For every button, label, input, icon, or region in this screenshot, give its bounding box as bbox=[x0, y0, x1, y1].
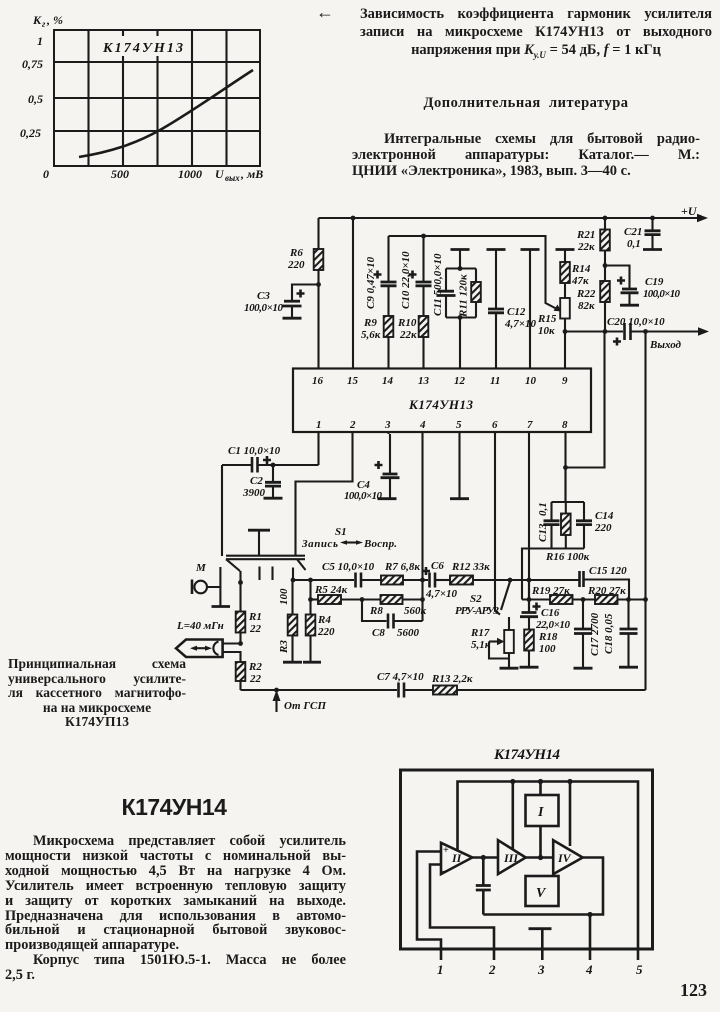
svg-text:К174УН13: К174УН13 bbox=[102, 41, 183, 56]
svg-text:R18: R18 bbox=[538, 631, 558, 643]
svg-text:R9: R9 bbox=[363, 317, 377, 329]
heading К174УН14 bbox=[0, 794, 348, 821]
resistor R21 bbox=[576, 216, 610, 253]
pin 2 lead with inverting input wiring bbox=[430, 865, 496, 978]
literature paragraph bbox=[352, 131, 700, 179]
svg-text:п: п bbox=[697, 212, 702, 221]
resistor R19 bbox=[522, 585, 595, 604]
pin 5 lead bbox=[636, 945, 643, 977]
capacitor C7 (series) bbox=[377, 671, 433, 698]
svg-text:С6: С6 bbox=[431, 560, 444, 572]
ARU feedback wire from C9/C10 to R15 bbox=[389, 236, 562, 312]
svg-text:100: 100 bbox=[278, 588, 290, 605]
svg-text:5600: 5600 bbox=[397, 627, 420, 639]
svg-text:5,1к: 5,1к bbox=[471, 639, 491, 651]
svg-text:S2: S2 bbox=[470, 593, 482, 605]
pin 5 stub to common bbox=[450, 432, 469, 499]
wire C1 line down to switch bbox=[221, 465, 223, 556]
node C1/C2 bbox=[271, 463, 276, 468]
resistor R20 bbox=[581, 585, 648, 604]
op-amp IV bbox=[553, 782, 583, 875]
capacitor C5 (series) bbox=[322, 561, 381, 588]
svg-text:I: I bbox=[537, 805, 544, 820]
resistor R8 bbox=[360, 595, 427, 617]
resistor R22 bbox=[576, 251, 610, 332]
capacitor C18 bbox=[603, 600, 638, 668]
wire pin6 down to S2 contact bbox=[495, 432, 500, 615]
resistor R3 with vertical labels bbox=[278, 580, 302, 662]
svg-text:100: 100 bbox=[539, 643, 556, 655]
grid horizontal lines bbox=[54, 62, 260, 131]
svg-text:+: + bbox=[443, 845, 449, 856]
svg-text:220: 220 bbox=[594, 522, 612, 534]
svg-text:6: 6 bbox=[492, 419, 498, 431]
resistor R9 bbox=[361, 316, 393, 368]
wire pin7 down bbox=[528, 432, 530, 612]
switch S1 slide bar bbox=[226, 556, 306, 571]
svg-text:15: 15 bbox=[347, 375, 359, 387]
svg-text:12: 12 bbox=[454, 375, 466, 387]
graph frame bbox=[54, 30, 260, 166]
capacitor C9 bbox=[365, 236, 397, 316]
svg-text:R13 2,2к: R13 2,2к bbox=[431, 673, 473, 685]
node R1 / head bbox=[238, 641, 243, 646]
svg-text:_: _ bbox=[442, 861, 449, 873]
svg-text:IV: IV bbox=[557, 851, 572, 865]
svg-text:R7 6,8к: R7 6,8к bbox=[384, 561, 420, 573]
svg-text:С5 10,0×10: С5 10,0×10 bbox=[322, 561, 375, 573]
capacitor C11 / resistor R11 parallel pair on pin 12 bbox=[432, 250, 481, 369]
svg-text:3: 3 bbox=[384, 419, 391, 431]
svg-text:М: М bbox=[195, 562, 207, 574]
svg-text:От ГСП: От ГСП bbox=[284, 700, 326, 712]
svg-text:3900: 3900 bbox=[242, 487, 266, 499]
svg-text:47к: 47к bbox=[571, 275, 589, 287]
capacitor C21 bbox=[624, 216, 662, 250]
svg-text:14: 14 bbox=[382, 375, 394, 387]
block V bbox=[526, 876, 559, 906]
wire pin1 down to C1 line bbox=[317, 432, 319, 465]
capacitor C4 (electrolytic) on pin 3 bbox=[344, 432, 400, 502]
pin 3 lead with common bar bbox=[529, 929, 552, 977]
svg-text:С21: С21 bbox=[624, 226, 642, 238]
svg-text:R14: R14 bbox=[571, 263, 591, 275]
node R15 / output line bbox=[563, 329, 568, 334]
tape head L=40 mH bbox=[176, 620, 241, 662]
svg-text:0,75: 0,75 bbox=[22, 57, 43, 71]
svg-text:1: 1 bbox=[437, 962, 444, 977]
svg-text:R1: R1 bbox=[248, 611, 262, 623]
svg-text:R19 27к: R19 27к bbox=[531, 585, 570, 597]
svg-text:С1 10,0×10: С1 10,0×10 bbox=[228, 445, 281, 457]
switch S2 bbox=[455, 578, 512, 617]
output line with capacitor C20 bbox=[565, 316, 709, 351]
capacitor C10 bbox=[400, 234, 432, 316]
switch S1 common bar symbol bbox=[248, 526, 397, 555]
signal path wires bbox=[472, 855, 553, 860]
svg-text:С3: С3 bbox=[257, 290, 270, 302]
resistor R14 bbox=[556, 250, 591, 288]
feedback loop IV output bbox=[483, 858, 603, 918]
microphone M bbox=[192, 562, 230, 607]
svg-text:вых: вых bbox=[225, 173, 240, 183]
svg-text:4: 4 bbox=[585, 962, 593, 977]
svg-text:0,1: 0,1 bbox=[537, 502, 549, 516]
svg-text:1: 1 bbox=[37, 34, 43, 48]
svg-text:R4: R4 bbox=[317, 614, 331, 626]
svg-text:8: 8 bbox=[562, 419, 568, 431]
svg-text:С2: С2 bbox=[250, 475, 263, 487]
svg-text:II: II bbox=[451, 851, 463, 865]
svg-text:V: V bbox=[536, 886, 547, 901]
svg-text:R12 33к: R12 33к bbox=[451, 561, 490, 573]
resistor R4 bbox=[303, 578, 335, 663]
grid vertical lines bbox=[89, 30, 227, 166]
svg-text:10: 10 bbox=[525, 375, 537, 387]
wire pin8 down bbox=[564, 432, 566, 502]
op-amp III bbox=[498, 840, 526, 874]
page number bbox=[680, 980, 707, 1001]
svg-text:R10: R10 bbox=[397, 317, 417, 329]
svg-text:К: К bbox=[32, 13, 42, 27]
svg-text:S1: S1 bbox=[335, 526, 347, 538]
svg-text:2: 2 bbox=[349, 419, 356, 431]
svg-text:1: 1 bbox=[316, 419, 322, 431]
svg-text:РРУ-АРУЗ: РРУ-АРУЗ bbox=[455, 605, 499, 617]
svg-text:1000: 1000 bbox=[178, 167, 202, 181]
outer case box bbox=[401, 770, 653, 949]
svg-text:III: III bbox=[503, 851, 519, 865]
svg-text:R22: R22 bbox=[576, 288, 596, 300]
svg-text:С20 10,0×10: С20 10,0×10 bbox=[607, 316, 665, 328]
svg-text:С12: С12 bbox=[507, 306, 526, 318]
resistor R5 bbox=[311, 584, 363, 604]
resistor R10 bbox=[397, 316, 428, 368]
svg-text:К174УН14: К174УН14 bbox=[493, 747, 561, 763]
block I bbox=[526, 782, 559, 858]
svg-text:7: 7 bbox=[527, 419, 533, 431]
variable resistor R15 bbox=[537, 283, 570, 368]
svg-text:11: 11 bbox=[490, 375, 500, 387]
wire pin2 to switch bbox=[296, 432, 353, 556]
svg-text:22к: 22к bbox=[399, 329, 417, 341]
IC U1 К174УН13 bbox=[293, 369, 591, 433]
svg-text:22,0×10: 22,0×10 bbox=[535, 619, 571, 631]
capacitor C16 (electrolytic) bbox=[520, 580, 571, 631]
node pin8 / output tap bbox=[563, 465, 568, 470]
capacitor C3 (electrolytic) bbox=[244, 285, 319, 319]
C13 / R16 / C14 parallel group on pin 8 bbox=[522, 468, 614, 600]
svg-text:С17 2700: С17 2700 bbox=[589, 612, 601, 656]
svg-text:С18 0,05: С18 0,05 bbox=[603, 613, 615, 654]
svg-text:5: 5 bbox=[636, 962, 643, 977]
resistor R12 bbox=[450, 561, 579, 585]
svg-text:560к: 560к bbox=[404, 605, 427, 617]
svg-text:R6: R6 bbox=[289, 247, 303, 259]
capacitor C2 bbox=[242, 465, 283, 499]
svg-text:С14: С14 bbox=[595, 510, 614, 522]
svg-text:R21: R21 bbox=[576, 229, 595, 241]
curve label К174УН13 bbox=[98, 36, 188, 56]
svg-text:Запись: Запись bbox=[301, 538, 338, 550]
svg-text:С19: С19 bbox=[645, 276, 664, 288]
svg-text:R20 27к: R20 27к bbox=[587, 585, 626, 597]
svg-text:+U: +U bbox=[681, 204, 698, 218]
capacitor C19 (electrolytic) bbox=[605, 266, 681, 306]
svg-text:4,7×10: 4,7×10 bbox=[425, 588, 458, 600]
svg-text:100,0×10: 100,0×10 bbox=[344, 490, 383, 502]
switch S1 contacts bbox=[238, 567, 295, 585]
variable resistor R17 bbox=[470, 617, 519, 668]
svg-text:0,1: 0,1 bbox=[627, 238, 641, 250]
svg-text:22: 22 bbox=[249, 623, 262, 635]
svg-text:R2: R2 bbox=[248, 661, 262, 673]
resistor R2 bbox=[236, 661, 263, 690]
svg-text:R11 120к: R11 120к bbox=[458, 274, 470, 318]
svg-text:100,0×10: 100,0×10 bbox=[244, 302, 284, 314]
capacitor C15 on line A bbox=[580, 565, 630, 600]
svg-text:R16 100к: R16 100к bbox=[545, 551, 590, 563]
svg-text:0,25: 0,25 bbox=[20, 126, 41, 140]
svg-text:Воспр.: Воспр. bbox=[363, 538, 397, 550]
op-amp II bbox=[441, 782, 513, 875]
resistor R6 bbox=[287, 218, 323, 368]
node: pin15 to rail bbox=[351, 216, 356, 368]
svg-text:0: 0 bbox=[43, 167, 49, 181]
capacitor C6 (series electrolytic) bbox=[422, 560, 458, 600]
svg-text:С15 120: С15 120 bbox=[589, 565, 627, 577]
svg-text:С13: С13 bbox=[537, 523, 549, 542]
svg-text:, мВ: , мВ bbox=[240, 167, 263, 181]
capacitor C17 bbox=[574, 600, 602, 669]
svg-text:9: 9 bbox=[562, 375, 568, 387]
svg-text:220: 220 bbox=[287, 259, 305, 271]
feedback line right edge down to bottom bbox=[644, 332, 646, 691]
svg-text:С11 500,0×10: С11 500,0×10 bbox=[432, 253, 444, 316]
svg-text:С10 22,0×10: С10 22,0×10 bbox=[400, 251, 412, 309]
pin 10 stub bbox=[521, 250, 540, 369]
capacitor C8 parallel loop bbox=[362, 597, 425, 639]
svg-text:Выход: Выход bbox=[649, 339, 682, 351]
top supply bus bbox=[458, 779, 639, 945]
node pin7 / line A bbox=[527, 578, 532, 583]
svg-text:16: 16 bbox=[312, 375, 324, 387]
pin 4 lead bbox=[585, 915, 593, 978]
svg-text:К174УН13: К174УН13 bbox=[408, 397, 474, 412]
node R6/C3 bbox=[316, 282, 321, 287]
pin 1 lead with input wiring bbox=[417, 852, 444, 978]
svg-text:R3: R3 bbox=[278, 640, 290, 654]
svg-text:U: U bbox=[215, 167, 225, 181]
node pin4/line A bbox=[420, 578, 425, 583]
svg-text:500: 500 bbox=[111, 167, 129, 181]
svg-text:R15: R15 bbox=[537, 313, 557, 325]
left caption: schematic description bbox=[8, 657, 186, 730]
svg-text:3: 3 bbox=[537, 962, 545, 977]
svg-text:10к: 10к bbox=[538, 325, 555, 337]
svg-text:13: 13 bbox=[418, 375, 430, 387]
svg-text:С16: С16 bbox=[541, 607, 560, 619]
svg-text:R8: R8 bbox=[369, 605, 383, 617]
wire pin8 to output line bbox=[566, 332, 605, 468]
svg-text:22к: 22к bbox=[577, 241, 595, 253]
svg-text:220: 220 bbox=[317, 626, 335, 638]
svg-text:82к: 82к bbox=[578, 300, 595, 312]
svg-text:, %: , % bbox=[46, 13, 63, 27]
body paragraph about К174УН14 bbox=[5, 834, 346, 983]
svg-text:4: 4 bbox=[419, 419, 426, 431]
bottom wire from R2 with От ГСП input bbox=[241, 688, 398, 712]
svg-text:0,5: 0,5 bbox=[28, 92, 43, 106]
svg-text:5: 5 bbox=[456, 419, 462, 431]
resistor R7 bbox=[381, 561, 428, 585]
svg-text:С7 4,7×10: С7 4,7×10 bbox=[377, 671, 424, 683]
svg-text:R5 24к: R5 24к bbox=[314, 584, 348, 596]
+Up supply rail bbox=[319, 204, 709, 222]
svg-text:4,7×10: 4,7×10 bbox=[504, 318, 537, 330]
resistor R1 bbox=[236, 583, 262, 644]
wire pin4 down bbox=[421, 432, 423, 621]
svg-text:L=40 мГн: L=40 мГн bbox=[176, 620, 224, 632]
section heading: Дополнительная литература bbox=[352, 95, 700, 112]
svg-text:С8: С8 bbox=[372, 627, 385, 639]
capacitor C1 (electrolytic, series) bbox=[222, 445, 319, 473]
distortion curve bbox=[79, 70, 253, 157]
resistor R18 bbox=[520, 630, 558, 668]
capacitor C12 on pin 11 bbox=[487, 250, 537, 369]
compensation capacitor bbox=[476, 858, 491, 915]
svg-text:22: 22 bbox=[249, 673, 262, 685]
wire: signal line A from switch bbox=[293, 579, 354, 581]
svg-text:г: г bbox=[42, 19, 46, 29]
resistor R13 bbox=[431, 673, 646, 695]
top-right caption paragraph bbox=[316, 5, 712, 64]
svg-text:5,6к: 5,6к bbox=[361, 329, 381, 341]
svg-text:100,0×10: 100,0×10 bbox=[643, 288, 681, 300]
svg-text:2: 2 bbox=[488, 962, 496, 977]
svg-text:R17: R17 bbox=[470, 627, 490, 639]
svg-text:С9 0,47×10: С9 0,47×10 bbox=[365, 256, 377, 309]
